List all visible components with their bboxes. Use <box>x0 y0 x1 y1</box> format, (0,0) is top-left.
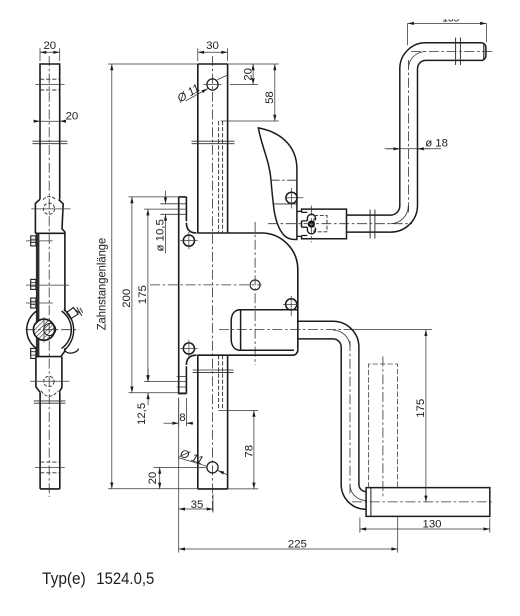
bend thin arcs (lower crank) <box>333 330 366 500</box>
sleeve inner line <box>370 488 372 517</box>
hole Ø11 top <box>207 79 218 90</box>
svg-text:35: 35 <box>191 499 204 511</box>
guide break lines (upper pair) <box>32 141 67 144</box>
bend thin arcs (upper crank) <box>391 52 426 224</box>
plate slot (top) <box>160 204 186 215</box>
svg-text:175: 175 <box>415 399 427 418</box>
housing outline <box>197 233 297 355</box>
svg-text:20: 20 <box>147 472 159 485</box>
dim 225 <box>179 516 398 552</box>
housing side: mounting plate edge-on (dark band) <box>36 233 40 356</box>
guide break lines (upper pair) <box>192 141 235 144</box>
dim 12,5 <box>136 368 148 425</box>
bottom clevis hidden round end (dashed arc) <box>41 391 57 397</box>
svg-text:78: 78 <box>243 445 255 458</box>
grip collar (top) <box>456 38 461 66</box>
rack bar bottom edge <box>198 488 228 490</box>
hex bolt 3 <box>31 298 36 308</box>
spring clip outer arc <box>64 309 74 350</box>
svg-text:175: 175 <box>137 285 149 304</box>
hidden rack slot (dashed, upper) <box>219 121 223 233</box>
svg-text:Typ(e): Typ(e) <box>42 570 86 588</box>
dim 35 <box>179 398 213 553</box>
rack bar top edge <box>198 63 228 65</box>
central hole centerlines <box>254 222 256 365</box>
Zahnstangenlaenge dimension <box>96 64 278 489</box>
top clevis hole centerline <box>31 208 70 210</box>
housing side: right edge <box>61 233 65 356</box>
bottom clevis hidden pivot hole <box>44 376 54 386</box>
lower boss cylinder <box>231 310 298 351</box>
rack bar (side view, upper part) <box>40 64 60 199</box>
clamp notch lower <box>302 227 308 235</box>
top clevis hidden round end (dashed arc) <box>43 197 56 200</box>
label diameter 11 (top hole) <box>175 75 227 105</box>
rack bar hidden hole (top, dashed) <box>40 79 60 90</box>
clamp pin <box>308 221 315 228</box>
dim 20 (hole from top) <box>230 64 258 85</box>
dim 30 (rack bar width) <box>198 40 228 61</box>
dim 20 (bottom hole to bar end) <box>147 467 206 489</box>
grip end inner line <box>483 44 485 60</box>
guide break lines (lower pair) <box>193 370 234 372</box>
housing screw bottom-left <box>183 343 194 354</box>
hex bolt 1 <box>31 236 36 246</box>
svg-text:8: 8 <box>179 412 185 424</box>
svg-text:1524.0,5: 1524.0,5 <box>96 570 154 588</box>
top clevis hidden pivot hole (dashed circle) <box>43 203 54 214</box>
hidden square bore (dashed) <box>314 215 327 231</box>
housing screw top-left <box>183 235 194 246</box>
rack bar front view: vertical edges <box>198 64 228 489</box>
axle centerline (horizontal) <box>25 329 79 331</box>
plate-to-housing fillet (top) <box>186 223 196 233</box>
phantom grip position (fine dashed) <box>369 364 398 488</box>
clamp jaw loop upper <box>307 214 315 221</box>
housing screw right <box>286 299 297 310</box>
svg-text:20: 20 <box>66 110 79 122</box>
blade inner line 1 <box>271 179 299 181</box>
hidden rack slot (dashed, lower) <box>219 355 223 410</box>
dim 78 <box>219 410 258 489</box>
top tube centerline <box>411 51 494 53</box>
dim 130 <box>360 518 490 533</box>
hex bolt 2 <box>31 279 36 289</box>
bar centerline (vertical dash-dot) <box>48 56 50 497</box>
svg-text:ø 10,5: ø 10,5 <box>155 219 167 251</box>
crank axis centerline (through clamp and mid tube) <box>268 223 412 225</box>
housing side: top edge <box>35 232 65 234</box>
dim 58 <box>221 64 279 121</box>
central axle hole <box>250 280 260 290</box>
svg-text:58: 58 <box>264 91 276 104</box>
dim 175 (crank throw) <box>352 330 432 502</box>
shaft vertical centerline ticks <box>43 317 45 343</box>
spring clip tail <box>64 349 78 354</box>
vertical tube1 centerline <box>408 60 410 213</box>
clamp block body <box>302 209 347 239</box>
dim 20 (left bar width, mid) <box>34 110 79 122</box>
svg-text:30: 30 <box>206 40 219 52</box>
rack bar centerline <box>212 56 214 513</box>
guide break lines (lower pair) <box>34 401 66 403</box>
dim diameter 10,5 (plate slots) <box>155 191 167 254</box>
housing side: bottom edge <box>36 356 61 358</box>
mid tube top edge + upper bend outer <box>347 43 486 232</box>
dim 135 (top, clipped) <box>408 13 487 46</box>
hole centerline (bottom) <box>35 466 65 468</box>
grease nipple <box>67 307 83 319</box>
svg-text:200: 200 <box>121 289 133 308</box>
dim 200 (plate length) <box>121 197 186 393</box>
content groups inserted below <box>25 56 82 497</box>
housing screw top-right <box>286 192 297 203</box>
lower crank tube <box>298 321 366 509</box>
dim 20 (left bar width, top) <box>40 40 60 61</box>
dim 8 (plate thickness) <box>164 398 194 426</box>
svg-text:12,5: 12,5 <box>136 403 148 425</box>
curved blade bracket <box>258 128 297 240</box>
mid tube collar <box>370 210 375 239</box>
top clevis block <box>35 199 65 234</box>
label diameter 11 (bottom hole) <box>177 447 227 474</box>
svg-text:130: 130 <box>422 518 441 530</box>
dim 175 (plate hole distance) <box>137 209 186 382</box>
clamp notch upper <box>302 212 308 221</box>
label diameter 18 <box>385 138 448 150</box>
clamp connectors <box>297 211 301 236</box>
svg-text:225: 225 <box>288 539 307 551</box>
bearing boss circle (left arc) <box>27 311 37 349</box>
phantom centerline <box>382 356 384 497</box>
bottom clevis block <box>36 357 62 393</box>
axle centerline of boss/crank <box>219 329 352 331</box>
sleeve centerline <box>352 501 493 503</box>
clamp jaw loop lower <box>307 227 315 234</box>
bottom clevis hole centerline <box>30 380 69 382</box>
plate-to-housing fillet (bottom) <box>186 355 196 365</box>
clamp centerline vertical <box>310 206 312 243</box>
shaft cross-section (hatched circle) <box>33 319 54 340</box>
bearing boss circle (right arc) <box>62 311 72 349</box>
blade inner line 2 <box>273 203 297 205</box>
plate slot (bottom) <box>177 377 187 388</box>
svg-text:Zahnstangenlänge: Zahnstangenlänge <box>96 238 108 331</box>
hex bolt 4 <box>31 348 36 358</box>
vertical tube2 centerline <box>349 341 351 494</box>
hole Ø11 bottom <box>207 462 218 473</box>
shaft inner circle <box>44 324 56 336</box>
grip sleeve (down position) <box>366 488 490 517</box>
mounting plate <box>179 197 187 394</box>
rack bar (side view, lower part) <box>40 392 60 489</box>
svg-text:20: 20 <box>243 68 255 81</box>
rack bar hidden hole (bottom, dashed) <box>40 462 60 473</box>
svg-text:20: 20 <box>43 40 56 52</box>
hole centerline (top) <box>35 84 64 86</box>
svg-text:ø 18: ø 18 <box>425 138 448 150</box>
